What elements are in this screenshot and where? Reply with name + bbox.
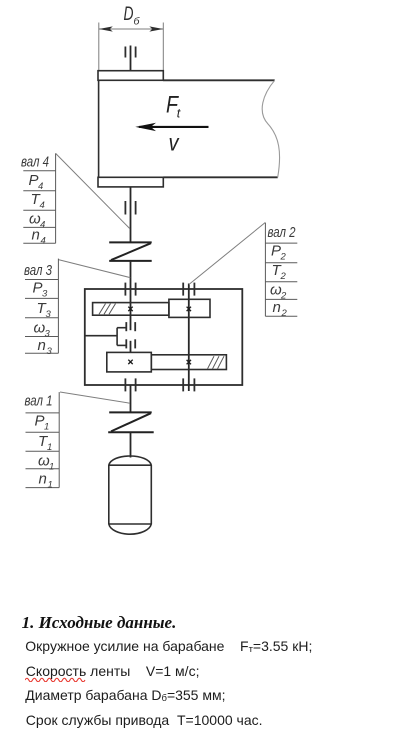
gear pinion z3 (stage 2 pinion, intermediate shaft) bbox=[169, 299, 210, 317]
bearing shaft2 top of housing bbox=[183, 283, 194, 296]
svg-text:4: 4 bbox=[40, 200, 45, 211]
spellcheck squiggle bbox=[25, 676, 91, 682]
intermediate support bracket bbox=[85, 328, 126, 346]
drum bottom flange bbox=[98, 177, 163, 187]
x-mark z2 on shaft 2 bbox=[187, 360, 191, 364]
bearing shaft2 bottom of housing bbox=[183, 378, 194, 391]
dimension label Db bbox=[124, 3, 141, 28]
drum left edge bbox=[98, 80, 100, 177]
svg-text:3: 3 bbox=[46, 309, 52, 320]
labels вал 1 bbox=[25, 394, 55, 491]
leader вал 3 bbox=[58, 260, 130, 278]
shaft 1 below housing bbox=[130, 385, 132, 413]
table вал 3 bbox=[25, 259, 58, 354]
svg-text:2: 2 bbox=[280, 271, 287, 282]
shaft 1 upper stub inside housing bbox=[130, 341, 132, 353]
hatch z2 bbox=[208, 356, 225, 369]
line Скорость ленты bbox=[26, 663, 200, 679]
svg-text:вал 2: вал 2 bbox=[268, 225, 296, 241]
svg-text:вал 1: вал 1 bbox=[25, 394, 53, 410]
line Окружное усилие bbox=[25, 638, 312, 655]
x-mark z1 on shaft 1 bbox=[128, 360, 132, 364]
svg-text:2: 2 bbox=[281, 308, 288, 319]
svg-text:t: t bbox=[177, 107, 181, 121]
gear wheel z2 (stage 1 wheel, intermediate shaft) bbox=[151, 355, 226, 370]
bearing of drum shaft bottom bbox=[125, 201, 135, 215]
svg-text:3: 3 bbox=[42, 289, 48, 300]
belt top edge bbox=[163, 79, 274, 81]
shaft 3 (gearbox output) bbox=[130, 261, 132, 315]
line Срок службы bbox=[26, 712, 263, 728]
force label Ft bbox=[166, 92, 181, 121]
x-mark z3 on shaft 2 bbox=[187, 307, 191, 311]
svg-text:1: 1 bbox=[48, 480, 53, 491]
drum top flange bbox=[98, 71, 163, 81]
svg-text:P: P bbox=[271, 243, 281, 260]
shaft 4 lower stub bbox=[130, 187, 132, 243]
bearing shaft3 top of housing bbox=[125, 283, 135, 296]
svg-text:D: D bbox=[124, 3, 134, 25]
svg-text:вал 3: вал 3 bbox=[24, 263, 52, 279]
internal bearing upper pair bbox=[126, 322, 135, 331]
table вал 1 bbox=[26, 392, 60, 488]
svg-text:P: P bbox=[33, 280, 43, 297]
svg-text:1: 1 bbox=[49, 462, 54, 473]
svg-text:1: 1 bbox=[44, 422, 49, 433]
bearing of drum shaft top bbox=[125, 47, 135, 58]
x-mark z4 on shaft 3 bbox=[128, 307, 132, 311]
heading 1. Исходные данные. bbox=[22, 613, 177, 633]
bearing shaft1 bottom of housing bbox=[125, 378, 135, 391]
coupling lower (elastic) bbox=[108, 412, 154, 432]
table вал 2 bbox=[265, 223, 297, 316]
svg-text:n: n bbox=[38, 337, 46, 354]
leader вал 2 bbox=[189, 222, 266, 284]
labels вал 2 bbox=[268, 225, 296, 319]
internal bearing lower pair bbox=[126, 339, 135, 348]
motor M bbox=[109, 456, 152, 534]
svg-text:n: n bbox=[273, 299, 281, 316]
dimension arrowheads bbox=[99, 26, 164, 31]
motor shaft bbox=[130, 432, 132, 457]
coupling upper (elastic) bbox=[109, 242, 152, 261]
svg-text:3: 3 bbox=[47, 346, 53, 357]
svg-text:вал 4: вал 4 bbox=[21, 155, 49, 171]
table вал 4 bbox=[23, 153, 55, 243]
dimension line Db bbox=[99, 23, 164, 71]
force arrow Ft bbox=[139, 126, 209, 128]
shaft 4 top stub bbox=[130, 46, 132, 71]
svg-text:n: n bbox=[32, 227, 40, 244]
gear wheel z4 (stage 2 wheel, output shaft) bbox=[93, 303, 169, 316]
svg-text:4: 4 bbox=[41, 236, 46, 247]
svg-text:2: 2 bbox=[280, 291, 287, 302]
svg-text:n: n bbox=[39, 471, 47, 488]
svg-text:P: P bbox=[29, 172, 39, 189]
svg-text:б: б bbox=[134, 16, 141, 28]
belt break curve bbox=[262, 80, 279, 177]
labels вал 4 bbox=[21, 155, 49, 247]
line Диаметр барабана bbox=[25, 687, 225, 704]
svg-text:4: 4 bbox=[40, 220, 45, 231]
leader вал 1 bbox=[60, 392, 130, 403]
svg-text:1: 1 bbox=[47, 442, 52, 453]
svg-text:P: P bbox=[35, 413, 45, 430]
svg-text:2: 2 bbox=[280, 252, 287, 263]
shaft 3 lower stub inside housing bbox=[130, 315, 132, 330]
shaft 2 (intermediate) bbox=[188, 284, 190, 392]
hatch z4 bbox=[99, 304, 116, 315]
labels вал 3 bbox=[24, 263, 53, 357]
svg-text:v: v bbox=[169, 130, 180, 156]
leader вал 4 bbox=[56, 153, 130, 228]
gearbox housing bbox=[85, 289, 243, 385]
belt bottom edge bbox=[163, 176, 277, 178]
gear pinion z1 (stage 1 pinion, input shaft) bbox=[107, 352, 152, 372]
